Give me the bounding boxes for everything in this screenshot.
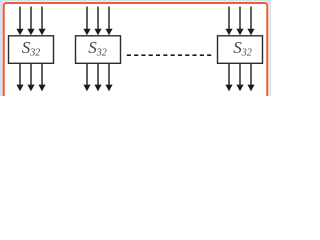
wire output arrows box3 (228, 64, 230, 87)
wire input arrows box2 (86, 7, 88, 31)
wire output arrows box2 (86, 64, 88, 87)
wire input arrows box3 (228, 7, 230, 31)
box S32 #1 (9, 36, 54, 64)
arrowheads output box1 (16, 85, 23, 92)
box S32 #3 (218, 36, 263, 64)
arrowheads input box3 (225, 29, 232, 35)
page background (light blue) (0, 0, 271, 96)
white card with orange border (2, 2, 269, 122)
box S32 #2 (76, 36, 121, 64)
arrowheads input box2 (83, 29, 90, 35)
arrowheads output box3 (225, 85, 232, 92)
wire input arrows box1 (19, 7, 21, 31)
arrowheads output box2 (83, 85, 90, 92)
dashed continuation line (127, 54, 212, 56)
wire output arrows box1 (19, 64, 21, 87)
arrowheads input box1 (16, 29, 23, 35)
